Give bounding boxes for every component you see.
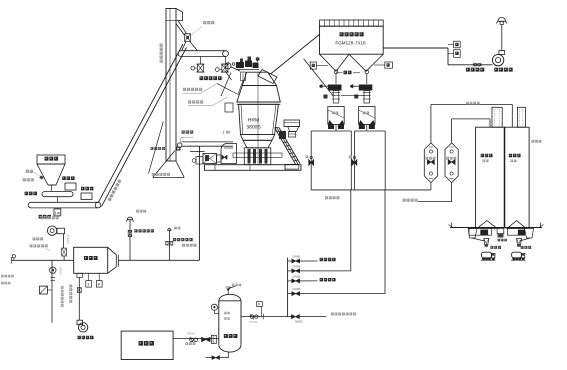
tank drain bbox=[206, 352, 229, 359]
temperature gauge box bbox=[448, 41, 460, 48]
lock-air rotary feeder 2 bbox=[215, 64, 228, 72]
elevator boot support brace bbox=[149, 122, 185, 178]
compressor station bbox=[121, 331, 173, 359]
product silo 2 bbox=[505, 127, 529, 228]
svg-text:DN65: DN65 bbox=[293, 274, 301, 278]
bleed stack 1 bbox=[126, 210, 146, 260]
hot gas riser bbox=[198, 146, 200, 260]
gas flow meter bbox=[40, 286, 53, 294]
svg-text:DN65: DN65 bbox=[293, 287, 301, 291]
filter level indicator right bbox=[374, 62, 393, 68]
receiving hopper bbox=[37, 155, 65, 185]
air lift bottom pipes bbox=[431, 183, 452, 202]
air branch to loop riser 1 bbox=[288, 264, 351, 273]
svg-text:DN50: DN50 bbox=[187, 332, 195, 336]
tank safety valve bbox=[226, 284, 242, 295]
svg-text:DN50: DN50 bbox=[250, 320, 258, 324]
bulk cement truck 2 bbox=[511, 252, 525, 260]
silo 2 roof dust filter bbox=[517, 107, 525, 127]
pressure transmitter bbox=[257, 302, 263, 317]
mill base frame bbox=[205, 165, 302, 171]
gas downpipe DN80 bbox=[62, 234, 70, 261]
silo 2 discharge gate bbox=[518, 230, 525, 236]
gas booster blower bbox=[41, 216, 65, 235]
gas line vertical labels bbox=[59, 267, 73, 307]
pneumatic conveying pump 1 bbox=[320, 70, 345, 131]
air risers to manifold bbox=[351, 190, 385, 294]
rotary airlock valve at elevator head bbox=[185, 21, 215, 42]
loading bellows 1 bbox=[472, 238, 501, 249]
bag filter hoppers bbox=[320, 54, 384, 71]
iron remover bbox=[81, 187, 93, 200]
pressure gauge box bbox=[448, 50, 460, 58]
air branch to loop riser 2 bbox=[288, 287, 385, 296]
gas inlet labels bbox=[1, 275, 14, 285]
exhaust stack with rain cap bbox=[496, 17, 507, 50]
right loading hopper bbox=[525, 228, 534, 238]
bucket elevator bbox=[160, 9, 183, 162]
separator drive package on mill top bbox=[232, 57, 259, 81]
mill shell HRM3800S bbox=[239, 72, 279, 165]
furnace pressure gauge bbox=[96, 273, 102, 287]
product silo 1 bbox=[476, 127, 505, 228]
mill inlet chute label bbox=[188, 97, 228, 106]
filter outlet duct bbox=[383, 48, 492, 65]
hot gas duct from furnace bbox=[119, 244, 200, 260]
air lift vessel 2 bbox=[445, 143, 458, 183]
mill manhole box bbox=[225, 103, 233, 112]
separator vent circle bbox=[225, 63, 240, 71]
natural gas header bbox=[12, 255, 74, 264]
air lift vessel 1 bbox=[424, 143, 437, 183]
gas station label bbox=[30, 237, 51, 250]
compressed air receiver tank bbox=[219, 294, 241, 352]
pipe to silo K11 bbox=[403, 199, 453, 202]
large-angle belt conveyor bbox=[98, 44, 187, 207]
burner nozzle bbox=[77, 273, 83, 320]
mill lower cone bbox=[243, 140, 272, 148]
mill external circulation chute bbox=[275, 128, 300, 170]
tank outlet line bbox=[241, 314, 326, 324]
center bulk loader bbox=[498, 234, 507, 242]
mill feed belt conveyor bbox=[178, 51, 228, 64]
air slide label bbox=[336, 71, 360, 75]
mill feed chute on separator bbox=[258, 70, 277, 84]
flow valve loop 2 bbox=[349, 156, 357, 166]
filter level indicator left bbox=[310, 62, 328, 69]
elevator boot drive bbox=[176, 147, 180, 150]
expansion joint and damper bbox=[466, 63, 484, 72]
mill separator body bbox=[237, 85, 280, 104]
hot air valve node bbox=[151, 130, 194, 150]
elevation mark 180 bbox=[223, 130, 232, 135]
belt conveyor 1W bbox=[28, 202, 101, 218]
mill gearbox bbox=[221, 143, 237, 163]
mill main motor bbox=[192, 154, 221, 165]
svg-text:FGM128-7X18: FGM128-7X18 bbox=[335, 40, 366, 45]
mill separator cap bbox=[242, 72, 276, 85]
svg-text:DN50: DN50 bbox=[59, 267, 63, 275]
motorized damper 1 bbox=[128, 229, 154, 236]
hopper wall vibrator bbox=[23, 170, 44, 182]
elevator discharge chute bbox=[176, 21, 187, 36]
svg-text:P: P bbox=[98, 282, 101, 287]
conveying pipe to silo 1 bbox=[452, 119, 490, 143]
conveying pipe loop 1 bbox=[311, 131, 351, 190]
air tank inlet line bbox=[173, 332, 219, 345]
feed chute into mill bbox=[217, 71, 243, 97]
loading bellows 2 bbox=[517, 238, 532, 249]
svg-text:DN65: DN65 bbox=[293, 264, 301, 268]
silo 1 roof dust filter bbox=[492, 107, 502, 127]
lock-air rotary feeder 1 bbox=[191, 64, 204, 72]
silo bottom slab bbox=[449, 223, 544, 228]
vibrating feeder bbox=[25, 185, 73, 202]
air branch to K44 bbox=[288, 274, 336, 283]
duct to pump feed bbox=[304, 59, 333, 96]
svg-text:DN65: DN65 bbox=[293, 254, 301, 258]
silo 1 discharge cone bbox=[477, 221, 497, 229]
conveying pipe loop 2 bbox=[354, 131, 385, 190]
mill pedestal and rollers bbox=[233, 148, 282, 165]
svg-text:3800S: 3800S bbox=[246, 125, 261, 131]
electromagnetic vibrator bbox=[62, 176, 76, 190]
svg-text:1 80: 1 80 bbox=[223, 130, 232, 135]
mill reject discharge hopper bbox=[279, 120, 300, 139]
pneumatic conveying pump 2 bbox=[351, 70, 376, 131]
conveying manifold bbox=[311, 189, 431, 191]
svg-text:DN80: DN80 bbox=[66, 235, 70, 243]
bag filter pulse valve row bbox=[320, 20, 384, 26]
svg-text:DN65: DN65 bbox=[295, 320, 303, 324]
silo 2 discharge cone bbox=[507, 221, 526, 229]
pump cross duct bbox=[341, 94, 364, 96]
left loading hopper bbox=[468, 228, 477, 238]
bleed stack 2 bbox=[168, 227, 181, 261]
gas shutoff valve M bbox=[50, 260, 56, 322]
air manifold bbox=[287, 258, 289, 317]
mill outlet duct to bag filter bbox=[271, 34, 321, 74]
main exhaust fan bbox=[492, 51, 512, 72]
svg-text:1W: 1W bbox=[55, 211, 61, 215]
chute from valve to mill feed belt bbox=[182, 42, 198, 51]
ignition combustion blower bbox=[77, 320, 94, 339]
external circulation return label bbox=[183, 84, 217, 94]
tank pressure gauge bbox=[211, 304, 219, 313]
silo vent labels bbox=[466, 102, 542, 143]
motorized damper 2 bbox=[166, 238, 193, 245]
hot air furnace bbox=[74, 247, 119, 273]
bulk cement truck 1 bbox=[481, 252, 496, 260]
lock-air feeder label bbox=[200, 76, 222, 80]
discharge tunnel boxes bbox=[469, 228, 524, 235]
bag filter body FGM128-7x18 bbox=[320, 26, 384, 54]
conveying pipe to silo 2 bbox=[431, 105, 512, 143]
pneumatic conveying label bbox=[325, 196, 339, 199]
flow valve loop 1 bbox=[306, 156, 314, 166]
silo 1 discharge gate bbox=[480, 230, 488, 236]
furnace temperature gauge bbox=[86, 273, 92, 287]
air branch to O44 bbox=[288, 254, 336, 263]
service air valve bbox=[291, 313, 356, 324]
hot air duct into mill bbox=[182, 142, 234, 152]
svg-text:HRM: HRM bbox=[248, 118, 259, 124]
